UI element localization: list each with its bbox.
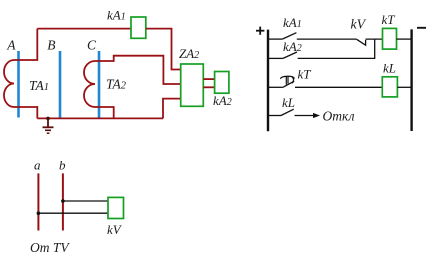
- label kL coil: [383, 61, 396, 76]
- current transformer TA2 winding: [84, 61, 95, 107]
- wire KT to negative bus: [397, 38, 412, 40]
- wire TA2 top to ZA2 middle terminal: [95, 56, 181, 84]
- wire trip arrow: [295, 113, 321, 118]
- relay coil KL: [382, 77, 397, 97]
- relay coil kA2: [215, 72, 229, 94]
- phase bus A (blue): [17, 51, 20, 118]
- label b: [59, 158, 66, 173]
- wire ZA2 to kA2 lower: [203, 86, 214, 88]
- positive bus: [267, 30, 269, 132]
- contact kV: [357, 39, 366, 45]
- wire phase a (from TV): [37, 173, 39, 230]
- label Откл: [323, 109, 355, 124]
- label kA2: [213, 93, 232, 108]
- wire row1 right into KT: [366, 38, 383, 40]
- wire TA1 bottom stub: [14, 107, 37, 118]
- svg-text:От TV: От TV: [30, 240, 70, 255]
- label От TV: [30, 240, 70, 255]
- contact kA1: [282, 33, 296, 39]
- svg-text:kT: kT: [298, 67, 312, 82]
- svg-text:kA1: kA1: [107, 8, 126, 23]
- wire a to kV: [38, 212, 108, 214]
- label A: [6, 37, 16, 52]
- svg-text:TA2: TA2: [106, 77, 127, 92]
- negative bus: [410, 29, 412, 131]
- label plus: [256, 27, 264, 35]
- relay coil KT: [383, 28, 397, 49]
- svg-text:B: B: [47, 37, 55, 52]
- label kT contact: [298, 67, 312, 82]
- svg-text:b: b: [59, 158, 66, 173]
- wire row1 left: [268, 38, 282, 40]
- wire phase b (from TV): [62, 173, 64, 230]
- label TA1: [29, 78, 49, 93]
- wire TA2 bottom stub: [95, 107, 114, 118]
- relay coil kA1: [131, 17, 146, 38]
- label kV coil: [107, 222, 123, 237]
- phase bus C (blue): [98, 51, 101, 118]
- label kA1 contact: [283, 15, 302, 30]
- label kV contact: [351, 17, 367, 32]
- svg-text:kA2: kA2: [283, 39, 302, 54]
- svg-text:kV: kV: [351, 17, 367, 32]
- svg-text:Откл: Откл: [323, 109, 355, 124]
- wire row4 left: [268, 115, 281, 117]
- ground: [43, 118, 54, 133]
- phase bus B (blue): [59, 51, 62, 118]
- node on a: [37, 211, 41, 215]
- wire row1 middle: [297, 38, 357, 40]
- wire row3 right into KL: [295, 86, 382, 88]
- wire bottom return bus: [37, 117, 163, 119]
- wire kA1 to ZA2 top terminal: [146, 29, 181, 70]
- wire KL to negative bus: [397, 86, 411, 88]
- contact kT time-delay: [280, 76, 294, 87]
- node ground junction: [46, 117, 50, 121]
- label kA2 contact: [283, 39, 302, 54]
- wire row2 left: [268, 57, 283, 59]
- relay ZA2: [181, 64, 204, 106]
- node on b: [61, 199, 65, 203]
- svg-text:kA2: kA2: [213, 93, 232, 108]
- svg-text:C: C: [87, 37, 97, 52]
- label TA2: [106, 77, 127, 92]
- current transformer TA1 winding: [4, 60, 14, 107]
- svg-text:kL: kL: [282, 95, 295, 110]
- label ZA2: [179, 46, 199, 61]
- svg-text:kV: kV: [107, 222, 123, 237]
- wire b to kV: [63, 200, 108, 202]
- label kT coil: [382, 12, 396, 27]
- svg-text:kT: kT: [382, 12, 396, 27]
- svg-text:a: a: [34, 158, 41, 173]
- relay coil kV: [108, 197, 124, 218]
- label a: [34, 158, 41, 173]
- wire top bus to kA1: [37, 28, 131, 30]
- wire row3 left: [268, 86, 283, 88]
- label B: [47, 37, 55, 52]
- label kL contact: [282, 95, 295, 110]
- label C: [87, 37, 97, 52]
- contact kA2: [283, 52, 297, 58]
- svg-text:TA1: TA1: [29, 78, 49, 93]
- contact kL: [281, 109, 294, 115]
- wire TA1 top stub: [14, 29, 37, 60]
- wire row2 right joining row1: [298, 39, 375, 58]
- svg-text:ZA2: ZA2: [179, 46, 199, 61]
- svg-text:A: A: [6, 37, 16, 52]
- label minus: [417, 27, 426, 29]
- label kA1: [107, 8, 126, 23]
- wire ZA2 to kA2 upper: [203, 78, 214, 80]
- svg-text:kL: kL: [383, 61, 396, 76]
- wire bus to ZA2 bottom terminal: [163, 99, 181, 119]
- svg-text:kA1: kA1: [283, 15, 302, 30]
